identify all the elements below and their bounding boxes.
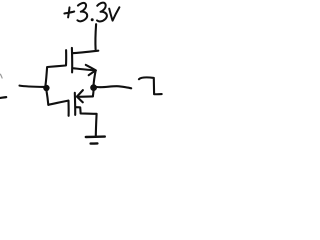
wire M1 drain to output node (94, 71, 96, 85)
ground GND (86, 137, 105, 144)
node IN junction (43, 85, 49, 91)
wire input rail to M1 gate (46, 67, 48, 85)
wire M2 drain to output node (92, 90, 95, 97)
wire to off-page (right step) (139, 77, 162, 94)
wire stub left edge (tick) (0, 74, 2, 78)
wire M1 gate lead (47, 66, 65, 68)
wire M1 source to VDD (73, 51, 99, 54)
transistor M1 (top PMOS) (66, 48, 96, 75)
wire input rail to M2 gate (47, 91, 49, 105)
wire VDD (94, 24, 97, 49)
net label +3.3V (64, 3, 119, 22)
wire M2 gate lead (48, 101, 68, 105)
wire stub left edge (dash) (0, 96, 6, 99)
wire input (20, 86, 45, 87)
wire M2 source (76, 107, 97, 136)
wire output (97, 86, 131, 88)
node OUT junction (90, 84, 97, 91)
transistor M2 (bottom NMOS) (69, 90, 93, 116)
